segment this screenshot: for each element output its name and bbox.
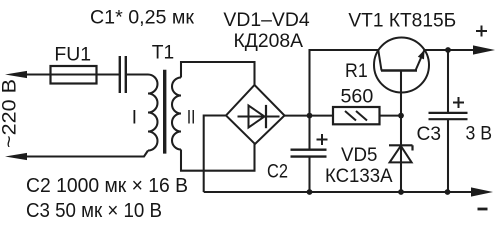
svg-text:КС133А: КС133А bbox=[325, 166, 393, 187]
svg-text:3 В: 3 В bbox=[466, 124, 493, 145]
svg-text:VD1–VD4: VD1–VD4 bbox=[223, 10, 310, 31]
svg-text:II: II bbox=[187, 108, 196, 129]
svg-text:С3 50 мк × 10 В: С3 50 мк × 10 В bbox=[26, 200, 162, 222]
svg-text:С2 1000 мк × 16 В: С2 1000 мк × 16 В bbox=[26, 175, 188, 197]
svg-text:С3: С3 bbox=[417, 124, 442, 145]
svg-text:VT1 КТ815Б: VT1 КТ815Б bbox=[348, 10, 456, 31]
svg-text:T1: T1 bbox=[152, 43, 174, 64]
svg-text:FU1: FU1 bbox=[54, 45, 91, 66]
svg-text:КД208А: КД208А bbox=[234, 31, 304, 52]
svg-text:R1: R1 bbox=[345, 61, 368, 82]
svg-text:С2: С2 bbox=[267, 162, 288, 183]
svg-text:I: I bbox=[132, 108, 137, 129]
svg-text:С1* 0,25 мк: С1* 0,25 мк bbox=[90, 8, 195, 29]
svg-text:VD5: VD5 bbox=[341, 145, 377, 166]
svg-text:~220 В: ~220 В bbox=[0, 79, 21, 148]
svg-text:560: 560 bbox=[341, 86, 374, 107]
